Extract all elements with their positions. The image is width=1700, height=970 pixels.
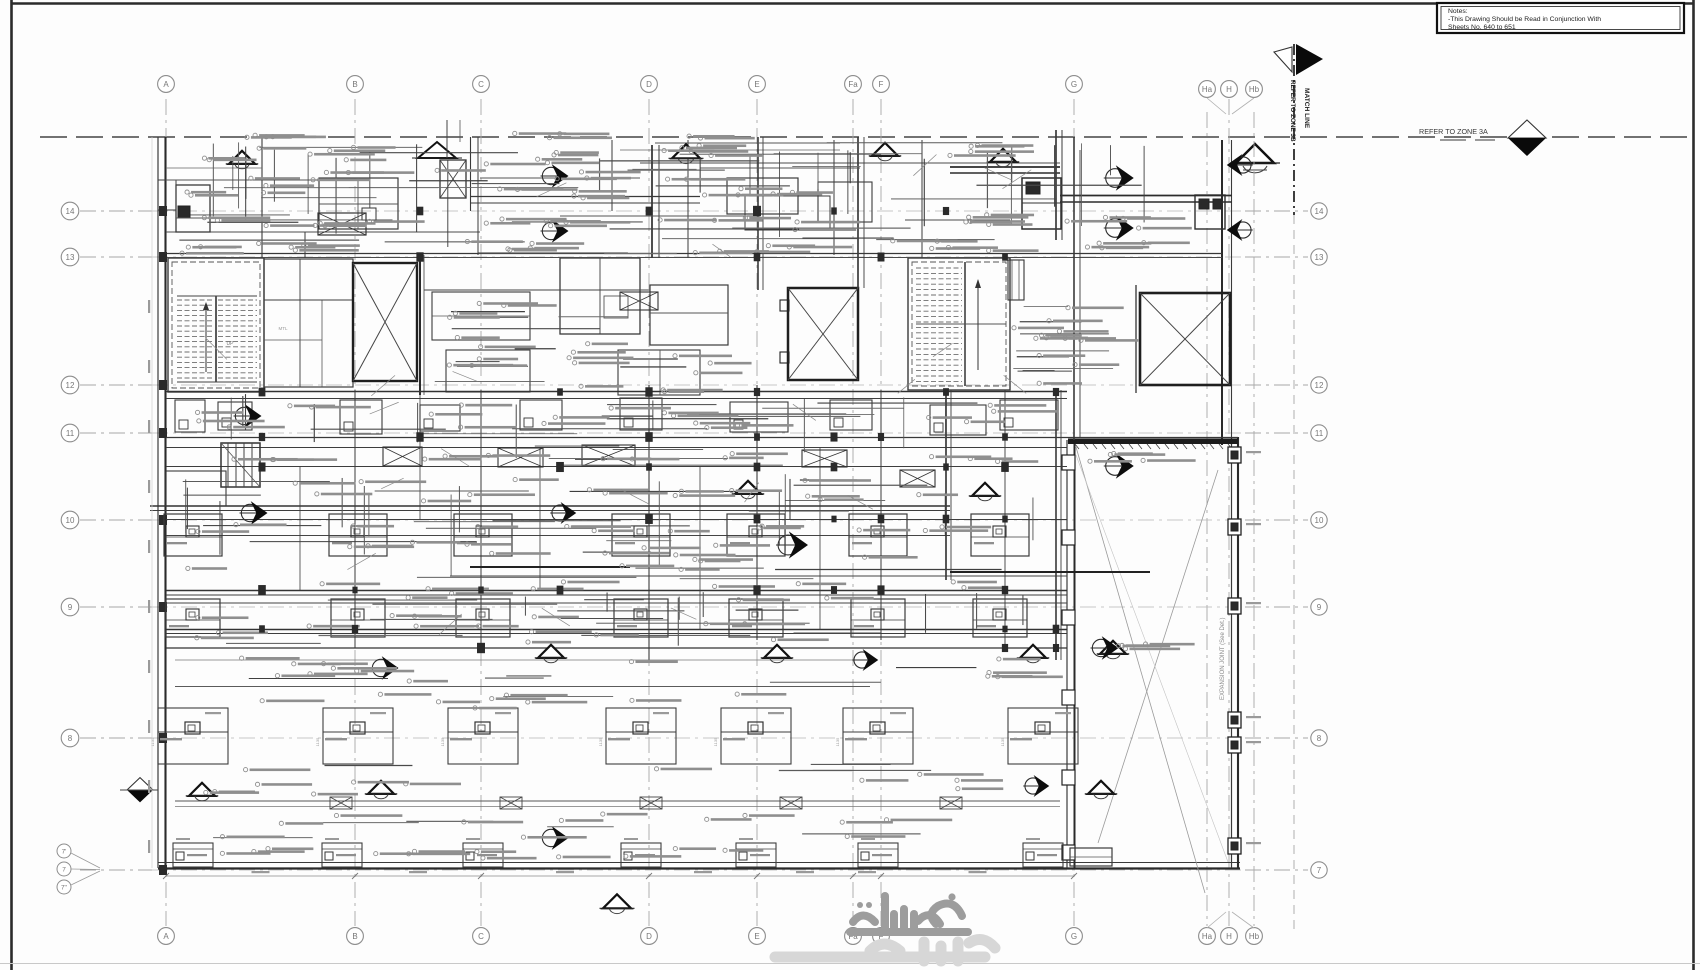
mid band column boxes row10 bbox=[164, 514, 222, 556]
svg-text:G: G bbox=[1071, 80, 1077, 89]
svg-text:Notes:: Notes: bbox=[1448, 8, 1468, 15]
svg-text:9: 9 bbox=[1317, 603, 1322, 612]
left exterior wall bbox=[157, 137, 159, 868]
zone marker diamond bbox=[1508, 120, 1546, 138]
svg-text:8: 8 bbox=[68, 734, 73, 743]
stair core 2 outline bbox=[908, 258, 1010, 390]
grid row line 8 bbox=[80, 737, 152, 739]
svg-text:MTL: MTL bbox=[279, 326, 288, 331]
room beside stair core 1 bbox=[264, 259, 353, 387]
mid band thick beams bbox=[470, 566, 630, 568]
svg-text:1135: 1135 bbox=[598, 737, 603, 746]
mid band vertical partitions bbox=[354, 390, 356, 648]
grid bubble Ha top bbox=[1199, 81, 1216, 98]
row10 band density fill bbox=[426, 527, 596, 529]
notes box bbox=[1437, 3, 1684, 33]
lift shaft 2 with X bbox=[788, 288, 858, 380]
annotation text clusters bbox=[207, 158, 211, 162]
right wall column blocks bbox=[1228, 447, 1241, 463]
columns row 7 bbox=[173, 843, 213, 867]
column drop panels row 8 bbox=[158, 708, 228, 764]
svg-text:12: 12 bbox=[1315, 381, 1324, 390]
grid bubble 14 right bbox=[1311, 203, 1327, 219]
grid row line 10 bbox=[80, 519, 152, 521]
dimension line bottom bbox=[166, 875, 1074, 877]
grid bubble C top bbox=[473, 76, 490, 93]
svg-text:EXPANSION JOINT (See Det.): EXPANSION JOINT (See Det.) bbox=[1220, 618, 1226, 700]
stub wall left top bbox=[158, 180, 176, 210]
grid bubble F bottom bbox=[873, 928, 890, 945]
room block D lower bbox=[618, 350, 700, 395]
watermark bottom light bbox=[775, 939, 995, 961]
grid line G bbox=[1073, 99, 1075, 926]
svg-text:7': 7' bbox=[62, 849, 67, 856]
bottom right corner box bbox=[1070, 848, 1112, 866]
grid bubble 14 left bbox=[61, 202, 79, 220]
svg-text:Ha: Ha bbox=[1202, 85, 1213, 94]
grid bubble E bottom bbox=[749, 928, 766, 945]
svg-text:F: F bbox=[879, 80, 884, 89]
grid bubble A bottom bbox=[158, 928, 175, 945]
match line top bbox=[40, 136, 1290, 138]
grid row line 13 bbox=[80, 256, 152, 258]
lower band markers bbox=[372, 659, 389, 676]
grid bubble A top bbox=[158, 76, 175, 93]
svg-text:Fa: Fa bbox=[848, 80, 858, 89]
leader lines bbox=[371, 375, 395, 395]
grid bubble H bottom bbox=[1221, 928, 1238, 945]
svg-text:A: A bbox=[163, 932, 169, 941]
corridor wall row10 north bbox=[150, 505, 950, 507]
svg-text:7: 7 bbox=[1317, 866, 1322, 875]
match line lower dashes bbox=[1293, 215, 1295, 935]
svg-text:Ha: Ha bbox=[1202, 932, 1213, 941]
svg-text:7'': 7'' bbox=[61, 885, 67, 892]
page top border bbox=[11, 2, 1694, 4]
grid bubble C bottom bbox=[473, 928, 490, 945]
left wall row blocks bbox=[159, 206, 167, 216]
svg-text:10: 10 bbox=[66, 516, 75, 525]
grid bubble 12 right bbox=[1311, 377, 1327, 393]
grid bubble 10 right bbox=[1311, 512, 1327, 528]
grid bubble Hb bottom bbox=[1246, 928, 1263, 945]
top right room block bbox=[1022, 178, 1061, 229]
top right corner marker bbox=[1235, 157, 1251, 173]
grid bubble 11 right bbox=[1311, 425, 1327, 441]
grid bubble 12 left bbox=[61, 376, 79, 394]
top right dark corridor bbox=[950, 166, 1060, 168]
grid row line 14 bbox=[80, 210, 152, 212]
grid bubble Ha bottom bbox=[1199, 928, 1216, 945]
right exterior wall upper bbox=[1221, 140, 1223, 445]
grid bubble 13 left bbox=[61, 248, 79, 266]
bottom exterior wall bbox=[158, 862, 1240, 864]
svg-text:14: 14 bbox=[1315, 207, 1324, 216]
slab edge line row8 north bbox=[175, 686, 870, 688]
column block A14 bbox=[176, 185, 210, 232]
svg-text:B: B bbox=[352, 932, 357, 941]
row9 band density fill bbox=[584, 599, 644, 601]
grid bubble B top bbox=[347, 76, 364, 93]
narrow duct beside stair 2 bbox=[1008, 260, 1024, 300]
grid bubble Fa bottom bbox=[845, 928, 862, 945]
top band boxes D-E bbox=[727, 178, 798, 214]
lift shaft 1 with X bbox=[353, 263, 417, 381]
svg-text:9: 9 bbox=[68, 603, 73, 612]
grid bubble 11 left bbox=[61, 424, 79, 442]
svg-text:C: C bbox=[478, 932, 484, 941]
grid line Hb bbox=[1253, 112, 1255, 926]
grid row line 9 bbox=[80, 606, 152, 608]
svg-text:REFER TO ZONE 3B: REFER TO ZONE 3B bbox=[1289, 80, 1296, 142]
cores band density fill bbox=[623, 358, 678, 360]
svg-text:H: H bbox=[1226, 85, 1232, 94]
grid bubble 7 variants left bbox=[57, 844, 71, 858]
room block C bbox=[432, 292, 530, 340]
row7 band density fill bbox=[406, 820, 493, 822]
grid H leader bottom bbox=[1207, 912, 1226, 928]
svg-text:1135: 1135 bbox=[713, 737, 718, 746]
svg-text:-This Drawing Should be Read i: -This Drawing Should be Read in Conjunct… bbox=[1448, 16, 1601, 23]
roof vent shaft bbox=[418, 142, 456, 158]
stair core 2 treads bbox=[916, 267, 962, 269]
stair core 2 divider bbox=[964, 262, 966, 386]
right exterior wall lower bbox=[1231, 437, 1233, 868]
stair core 1 outline bbox=[168, 258, 264, 392]
svg-text:11: 11 bbox=[1315, 429, 1324, 438]
svg-text:G: G bbox=[1071, 932, 1077, 941]
top band markers bbox=[229, 151, 255, 164]
grid bubble 13 right bbox=[1311, 249, 1327, 265]
grid bubble 10 left bbox=[61, 511, 79, 529]
grid bubble G bottom bbox=[1066, 928, 1083, 945]
svg-text:1135: 1135 bbox=[150, 737, 155, 746]
corridor wall row11 bbox=[166, 437, 1238, 439]
grid bubble D top bbox=[641, 76, 658, 93]
grid line B bbox=[354, 99, 356, 926]
crossed lintel boxes row11 bbox=[383, 447, 422, 466]
row11 band density fill bbox=[423, 433, 577, 435]
svg-text:Hb: Hb bbox=[1249, 85, 1260, 94]
datum marker below H bbox=[1236, 144, 1274, 163]
grid bubble H top bbox=[1221, 81, 1238, 98]
crossed lintel boxes mid bbox=[620, 292, 658, 310]
match line flag top right bbox=[1293, 44, 1295, 215]
svg-text:REFER TO ZONE 3A: REFER TO ZONE 3A bbox=[1419, 127, 1488, 136]
svg-text:1135: 1135 bbox=[835, 737, 840, 746]
duct shaft row11 bbox=[221, 443, 260, 487]
svg-text:7: 7 bbox=[62, 867, 66, 874]
svg-text:1135: 1135 bbox=[440, 737, 445, 746]
grid line Fa bbox=[852, 99, 854, 926]
expansion zone outline bbox=[1066, 440, 1068, 868]
mid band room boxes row11-10 bbox=[175, 400, 205, 432]
svg-text:UP: UP bbox=[227, 341, 235, 347]
grid row line 11 bbox=[80, 432, 152, 434]
top right block near wall bbox=[1195, 195, 1225, 229]
stair core 2 arrow bbox=[977, 280, 979, 370]
grid bubble G top bbox=[1066, 76, 1083, 93]
svg-text:A: A bbox=[163, 80, 169, 89]
grid line H bbox=[1228, 99, 1230, 926]
grid bubble 9 right bbox=[1311, 599, 1327, 615]
svg-text:12: 12 bbox=[66, 381, 75, 390]
grid H leader top bbox=[1207, 98, 1226, 114]
top band vertical walls bbox=[261, 137, 263, 258]
grid line F bbox=[880, 99, 882, 926]
grid bubble E top bbox=[749, 76, 766, 93]
svg-text:E: E bbox=[754, 80, 759, 89]
grid bubble 8 left bbox=[61, 729, 79, 747]
svg-text:D: D bbox=[646, 932, 652, 941]
grid bubble 7 right bbox=[1311, 862, 1327, 878]
lift 1 side wall bbox=[419, 255, 421, 395]
left wall column blocks expansion bbox=[1062, 455, 1075, 470]
grid bubble D bottom bbox=[641, 928, 658, 945]
svg-text:Sheets No. 640 to 651: Sheets No. 640 to 651 bbox=[1448, 24, 1516, 31]
page bottom rule bbox=[0, 963, 1700, 965]
top band extra beams bbox=[655, 142, 840, 144]
expansion zone diagonal X bbox=[1076, 447, 1205, 893]
grid bubble B bottom bbox=[347, 928, 364, 945]
grid line C bbox=[480, 99, 482, 926]
grid line D bbox=[648, 99, 650, 926]
crossed lintel boxes row12 bbox=[318, 213, 366, 235]
grid bubble Hb top bbox=[1246, 81, 1263, 98]
stair core 1 center wall bbox=[215, 296, 217, 382]
left outside marker bbox=[127, 778, 153, 790]
corridor wall row9 south bbox=[166, 629, 1067, 631]
grid bubble Fa top bbox=[845, 76, 862, 93]
grid line E bbox=[756, 99, 758, 926]
room block B14 bbox=[319, 178, 398, 229]
mid band markers bbox=[235, 407, 252, 424]
svg-text:MATCH LINE: MATCH LINE bbox=[1303, 88, 1310, 129]
svg-text:8: 8 bbox=[1317, 734, 1322, 743]
svg-text:13: 13 bbox=[66, 253, 75, 262]
svg-text:1135: 1135 bbox=[315, 737, 320, 746]
page left border bbox=[10, 0, 13, 970]
stair core 1 up arrow bbox=[205, 305, 207, 372]
grid bubble 8 right bbox=[1311, 730, 1327, 746]
beam line row8 south bbox=[175, 800, 1060, 802]
corridor wall row12 south bbox=[166, 391, 1067, 393]
room block D upper bbox=[560, 258, 640, 334]
svg-text:1135: 1135 bbox=[1000, 737, 1005, 746]
expansion zone top heavy band bbox=[1068, 439, 1238, 445]
svg-text:10: 10 bbox=[1315, 516, 1324, 525]
bottom center marker bbox=[603, 894, 631, 908]
grid line A bbox=[165, 99, 167, 926]
watermark khamsat bbox=[850, 896, 968, 932]
small column fills bbox=[259, 388, 266, 397]
svg-text:14: 14 bbox=[66, 207, 75, 216]
mid band column boxes row9 bbox=[166, 599, 220, 637]
svg-text:13: 13 bbox=[1315, 253, 1324, 262]
grid bubble F top bbox=[873, 76, 890, 93]
grid line Ha bbox=[1206, 112, 1208, 926]
svg-text:Hb: Hb bbox=[1249, 932, 1260, 941]
svg-text:E: E bbox=[754, 932, 759, 941]
top band density fill bbox=[190, 214, 290, 216]
svg-text:D: D bbox=[646, 80, 652, 89]
stair core 1 treads bbox=[177, 299, 214, 301]
svg-text:C: C bbox=[478, 80, 484, 89]
grid bubble 9 left bbox=[61, 598, 79, 616]
svg-text:H: H bbox=[1226, 932, 1232, 941]
page right border bbox=[1692, 0, 1695, 970]
grid row line 12 bbox=[80, 384, 152, 386]
svg-text:11: 11 bbox=[66, 429, 75, 438]
row8 band density fill bbox=[896, 667, 976, 669]
top band corridor walls bbox=[470, 196, 700, 198]
lift shaft 3 with X bbox=[1140, 293, 1230, 385]
corridor wall row9 north bbox=[450, 575, 1067, 577]
grid row line 7 bbox=[80, 869, 152, 871]
room block D-E bbox=[650, 285, 728, 345]
left margin dimension ticks bbox=[148, 300, 150, 313]
svg-text:B: B bbox=[352, 80, 357, 89]
